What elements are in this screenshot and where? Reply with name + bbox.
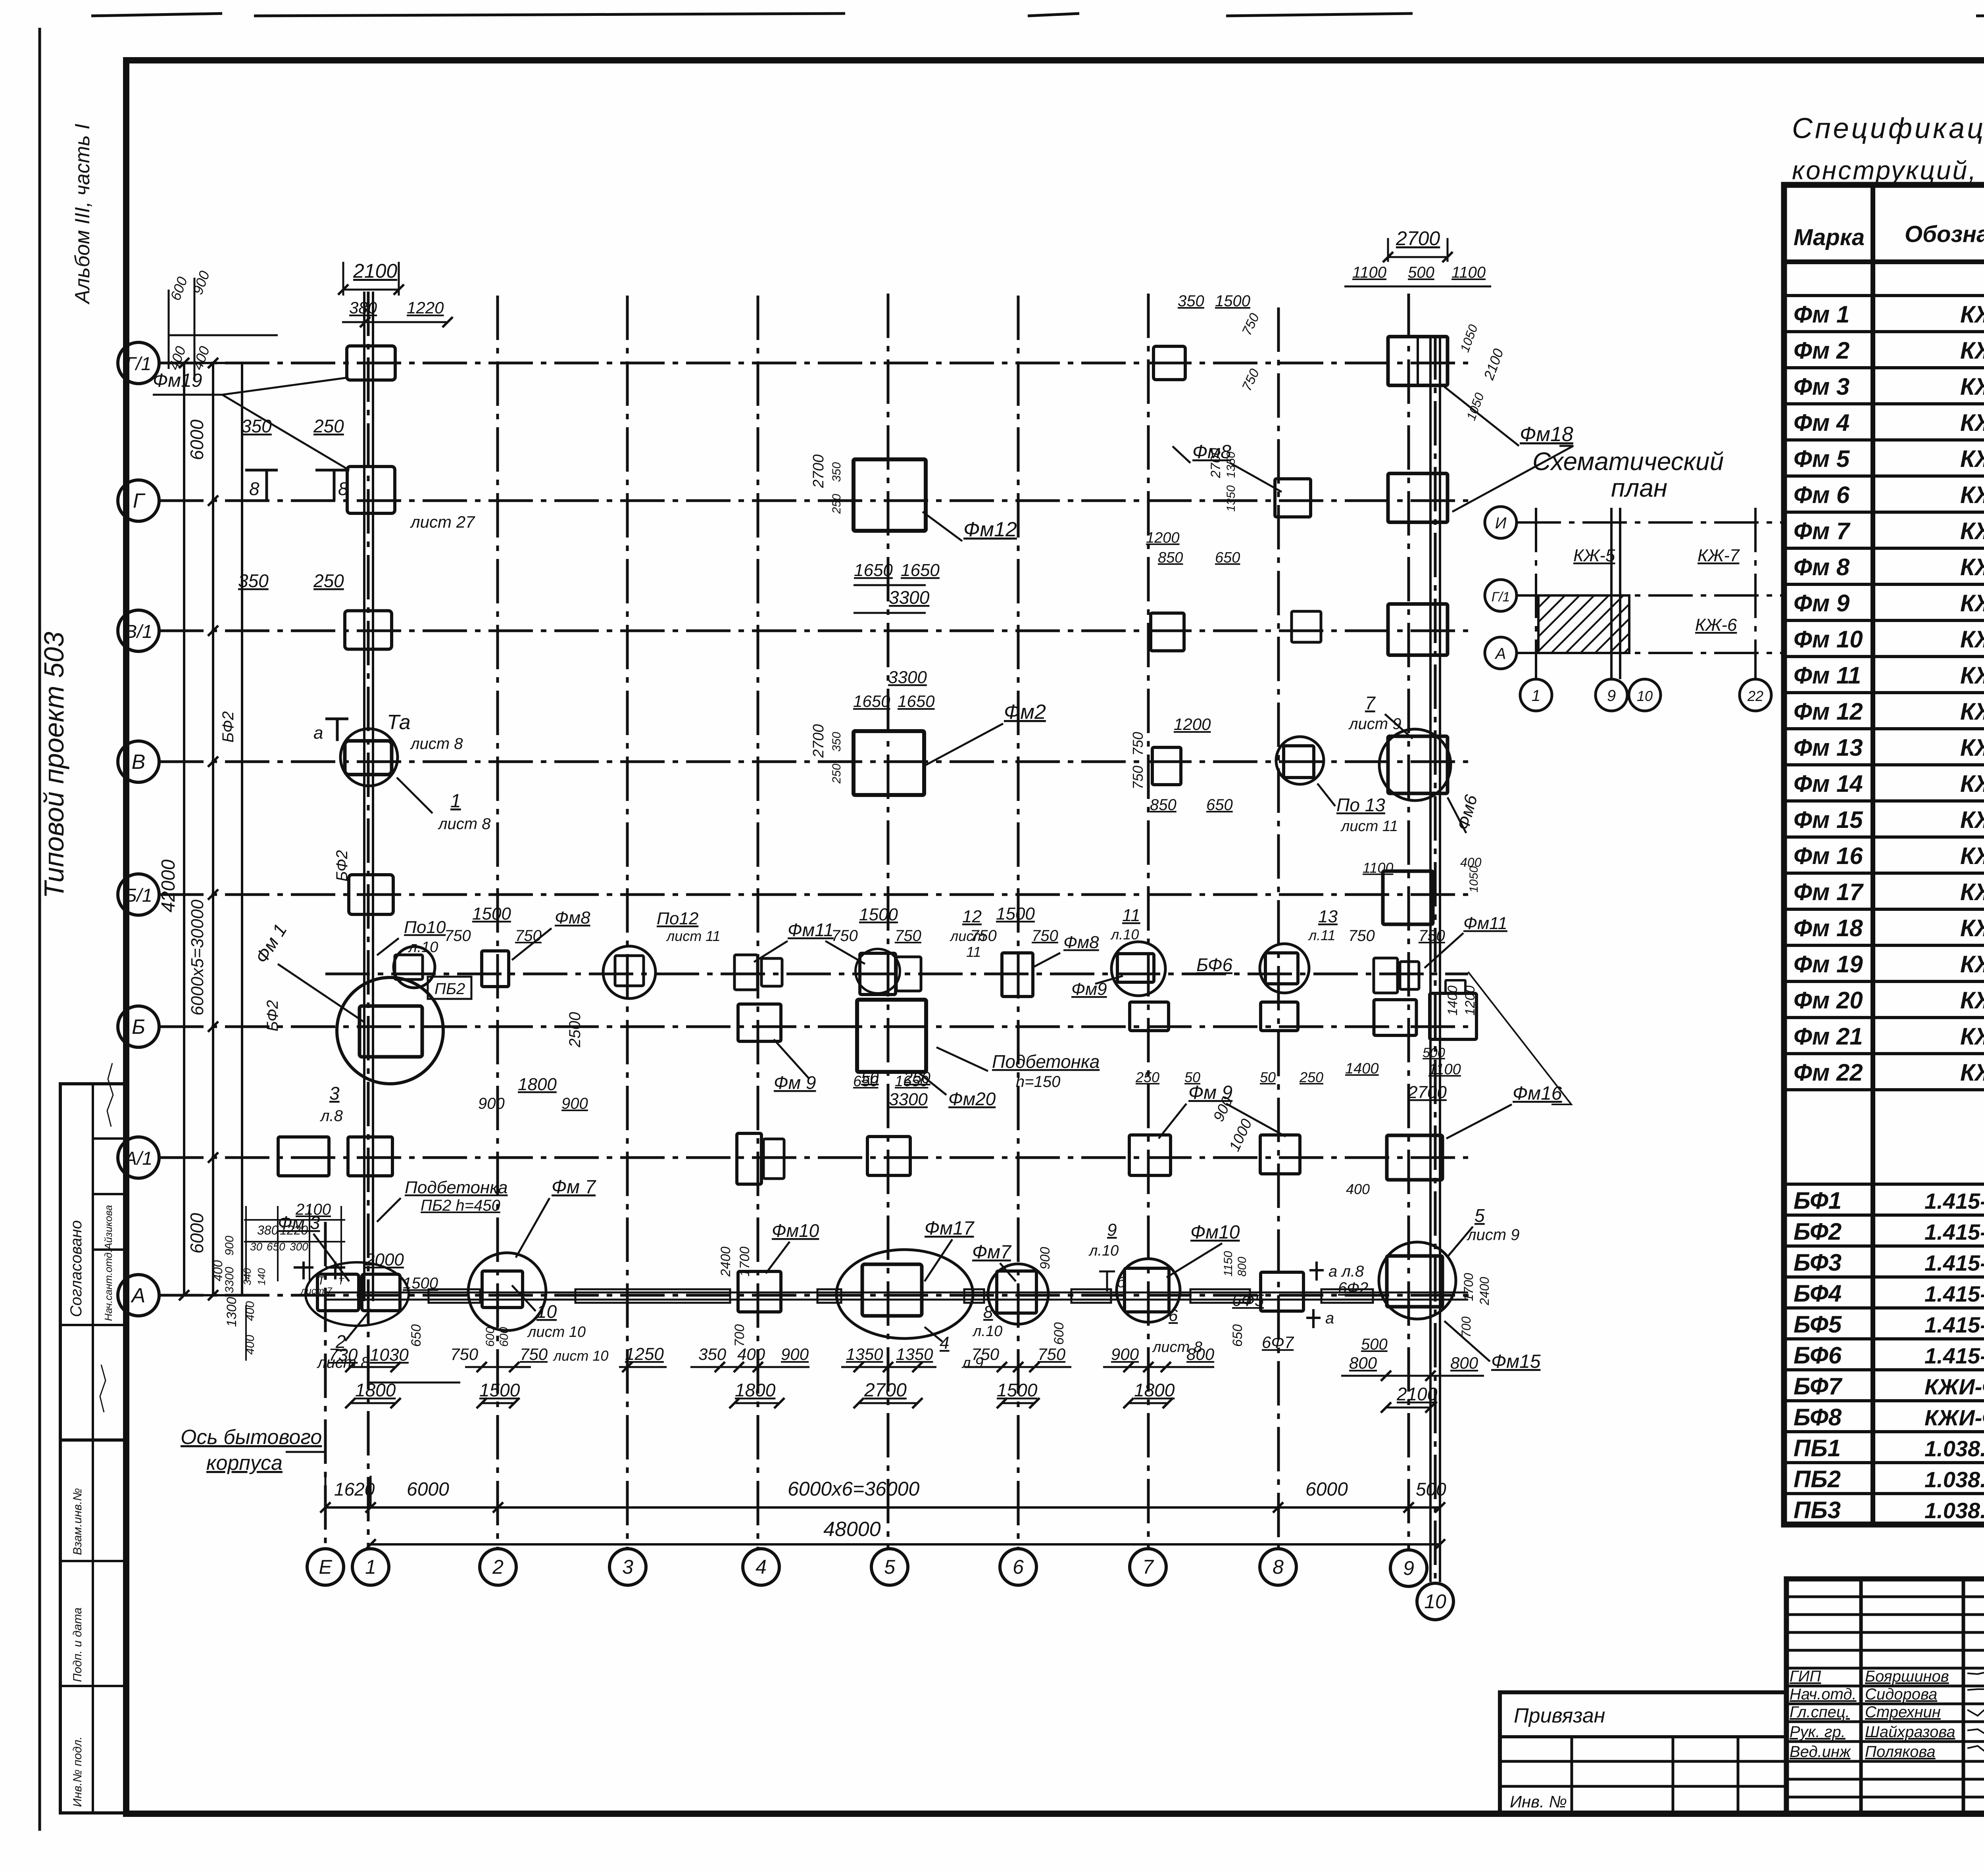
axis circle 5 [871,1549,908,1585]
foundation col8 row A [1261,1272,1303,1311]
spec row Фм 1 [1784,330,1984,333]
left dim line aux [241,363,243,1295]
svg-text:Фм 8: Фм 8 [1794,554,1850,580]
svg-text:5: 5 [1475,1205,1485,1226]
foundation col9 row A1 [1387,1135,1442,1180]
svg-text:900: 900 [478,1095,505,1112]
svg-text:1.415-1 в.1: 1.415-1 в.1 [1924,1250,1984,1275]
svg-text:Подбетонка: Подбетонка [405,1178,508,1197]
svg-text:800: 800 [1186,1345,1215,1363]
svg-text:500: 500 [1416,1479,1446,1500]
svg-text:1200: 1200 [1146,530,1180,546]
foundation col7 band circle [1111,942,1165,996]
svg-text:Гл.спец.: Гл.спец. [1790,1703,1850,1721]
foundation col1 row B circle 3l8 [337,977,443,1084]
svg-text:350: 350 [1178,292,1204,310]
axis circle 10 [1417,1583,1453,1620]
svg-text:Вед.инж: Вед.инж [1790,1743,1851,1761]
foundation col7 band lower [1130,1002,1169,1031]
spec row Фм 6 [1784,511,1984,514]
svg-text:Шайхразова: Шайхразова [1865,1723,1955,1741]
svg-text:Т: Т [338,1276,345,1287]
svg-text:750: 750 [1130,732,1146,756]
svg-text:Фм8: Фм8 [1063,933,1099,952]
svg-text:ПБ2: ПБ2 [1794,1466,1841,1492]
svg-text:11: 11 [966,944,981,960]
svg-text:8: 8 [1273,1556,1284,1578]
svg-text:1800: 1800 [518,1075,557,1094]
svg-text:ПБ2 h=450: ПБ2 h=450 [421,1197,500,1214]
svg-text:Г/1: Г/1 [126,353,152,374]
svg-text:22: 22 [1747,688,1763,704]
svg-text:1800: 1800 [1134,1380,1175,1400]
svg-text:500: 500 [1361,1336,1388,1353]
svg-text:730: 730 [329,1345,358,1365]
axis circle 2 [480,1549,516,1585]
svg-text:650: 650 [853,1073,878,1090]
svg-text:Фм11: Фм11 [788,920,834,940]
svg-text:750: 750 [444,927,471,945]
svg-text:Схематический: Схематический [1532,447,1724,476]
svg-text:1650: 1650 [901,561,940,580]
svg-text:Фм 5: Фм 5 [1794,445,1850,472]
sheet outer border left [38,28,41,1831]
svg-text:КЖ-15: КЖ-15 [1960,987,1984,1014]
svg-text:Фм20: Фм20 [948,1089,996,1109]
svg-text:Фм10: Фм10 [772,1220,819,1241]
spec row Фм 18 [1784,944,1984,947]
svg-text:380: 380 [257,1223,279,1237]
svg-text:КЖ-14: КЖ-14 [1960,734,1984,761]
svg-text:1650: 1650 [854,561,893,580]
svg-text:12: 12 [962,907,982,926]
foundation Po12 col3 [603,946,656,998]
svg-text:1.415-1 в.1: 1.415-1 в.1 [1924,1312,1984,1337]
axis line А/1 [159,1156,1468,1159]
svg-text:10: 10 [1637,688,1653,704]
svg-text:750: 750 [971,1345,1000,1363]
svg-text:400: 400 [211,1260,225,1281]
svg-text:10: 10 [1424,1590,1446,1613]
svg-text:2700: 2700 [1396,227,1440,250]
spec row БФ1 [1784,1214,1984,1217]
foundation Fm18 col9/10 [1388,337,1448,386]
svg-text:1100: 1100 [1428,1061,1461,1078]
svg-text:50: 50 [1260,1069,1276,1085]
svg-text:Фм 19: Фм 19 [1794,951,1863,977]
svg-text:Марка: Марка [1794,225,1865,250]
schematic axis A [1485,637,1517,669]
schematic axis G1 [1485,580,1517,611]
svg-text:лист 9: лист 9 [1348,715,1401,733]
svg-text:8: 8 [338,478,348,499]
svg-text:Рук. гр.: Рук. гр. [1790,1723,1846,1741]
svg-text:Б: Б [132,1016,145,1039]
svg-text:лист 11: лист 11 [1340,818,1398,835]
axis circle 6 [1000,1549,1036,1585]
svg-text:8: 8 [983,1302,993,1322]
spec row Фм 17 [1784,908,1984,911]
svg-text:Фм 14: Фм 14 [1794,770,1863,797]
foundation col6 band [1002,953,1033,997]
svg-text:700: 700 [732,1324,747,1347]
svg-text:1400: 1400 [1345,1060,1379,1077]
svg-text:1700: 1700 [1461,1273,1476,1301]
svg-text:лист 8: лист 8 [410,735,463,753]
svg-text:350: 350 [238,570,269,591]
axis line Б [159,1025,1468,1028]
svg-text:Фм 7: Фм 7 [552,1177,596,1198]
svg-text:ПБ2: ПБ2 [434,980,465,998]
svg-text:1500: 1500 [472,904,511,924]
foundation col1 row G [347,467,395,513]
title block signature columns [1859,1579,1863,1814]
svg-text:Та: Та [387,711,411,734]
axis circle Г/1 [118,342,159,384]
svg-text:л.10: л.10 [972,1323,1002,1340]
svg-text:750: 750 [895,927,921,945]
svg-text:Спецификация к схемам желез: Спецификация к схемам железобетонных [1792,113,1984,144]
foundation col10 row B [1430,993,1476,1039]
svg-text:Полякова: Полякова [1865,1743,1936,1761]
axis circle 3 [609,1549,646,1585]
foundation col1 row A1 pair [278,1137,329,1176]
svg-text:1350: 1350 [1225,451,1238,478]
svg-text:КЖИ-ФБ6-12-1: КЖИ-ФБ6-12-1 [1924,1374,1984,1399]
svg-text:3300: 3300 [889,1090,928,1109]
svg-text:КЖ-5: КЖ-5 [1573,546,1615,565]
svg-text:250: 250 [313,416,344,436]
svg-text:1400: 1400 [1445,985,1460,1016]
axis line В [159,760,1468,763]
svg-text:400: 400 [1346,1181,1370,1197]
axis line col 3 [626,296,629,1548]
svg-text:Фм7: Фм7 [972,1242,1012,1263]
svg-text:КЖИ-ФБ6-13-1: КЖИ-ФБ6-13-1 [1924,1405,1984,1430]
svg-text:1350: 1350 [846,1345,883,1363]
svg-text:КЖ-13: КЖ-13 [1960,879,1984,905]
svg-text:Фм19: Фм19 [153,370,202,391]
svg-text:3: 3 [622,1556,633,1578]
svg-text:850: 850 [1150,796,1177,814]
svg-text:900: 900 [1111,1345,1139,1363]
svg-text:650: 650 [409,1324,424,1347]
svg-text:750: 750 [450,1345,479,1363]
svg-text:500: 500 [1408,264,1434,281]
svg-text:2400: 2400 [718,1246,733,1277]
axis line Г [159,499,1468,502]
spec row Фм 16 [1784,872,1984,875]
svg-text:Нач.сант.отд.Айзикова: Нач.сант.отд.Айзикова [102,1205,114,1321]
svg-text:8: 8 [249,478,260,499]
svg-text:2100: 2100 [1396,1384,1438,1404]
svg-text:Стрехнин: Стрехнин [1865,1703,1941,1721]
foundation col4 row B [738,1004,781,1041]
svg-text:БФ8: БФ8 [1794,1404,1842,1431]
foundation podbetonka big rect [857,1000,926,1072]
svg-text:2700: 2700 [1407,1083,1447,1102]
svg-text:КЖ-18: КЖ-18 [1960,301,1984,328]
spec row Фм 3 [1784,402,1984,405]
label PB2 box [428,977,471,999]
svg-text:КЖ-20: КЖ-20 [1960,915,1984,941]
svg-text:БФ3: БФ3 [1794,1249,1842,1276]
spec row Фм 19 [1784,980,1984,983]
svg-text:БФ1: БФ1 [1794,1187,1842,1214]
foundation col2 row A circle [468,1253,546,1331]
svg-text:БФ6: БФ6 [1196,954,1232,975]
svg-text:1030: 1030 [370,1345,409,1365]
svg-text:Альбом III, часть I: Альбом III, часть I [71,124,94,305]
foundation col9/10 row B1 [1383,871,1433,924]
svg-text:1250: 1250 [625,1344,664,1364]
svg-text:л.10: л.10 [1088,1242,1119,1259]
svg-text:Подп. и дата: Подп. и дата [71,1607,84,1682]
svg-text:лист 10: лист 10 [553,1348,608,1364]
axis line col 4 [757,296,759,1548]
svg-text:ПБ3: ПБ3 [1794,1497,1841,1523]
svg-text:1.038.1-1 в.1: 1.038.1-1 в.1 [1924,1436,1984,1461]
svg-text:1100: 1100 [1363,860,1393,876]
svg-text:9: 9 [1403,1557,1414,1579]
svg-text:350: 350 [241,416,272,436]
svg-text:Фм8: Фм8 [555,908,590,927]
svg-text:Инв.№ подл.: Инв.№ подл. [71,1736,84,1807]
axis line В/1 [159,630,1468,632]
margin table inv [60,1440,125,1813]
spec row БФ2 [1784,1244,1984,1248]
spec row ПБ1 [1784,1461,1984,1464]
foundation col7 row A circle [1117,1259,1180,1322]
section a l8 [1315,1262,1318,1281]
foundation col5 row A1 [867,1137,910,1175]
svg-text:корпуса: корпуса [206,1452,283,1475]
spec row Фм 21 [1784,1052,1984,1055]
signature area row lines [1786,1596,1984,1598]
spec row Фм 4 [1784,438,1984,442]
axis 1 wall double line [363,292,365,1301]
svg-text:Г/1: Г/1 [1492,589,1510,605]
spec row БФ8 [1784,1430,1984,1433]
schematic axis 10 [1629,679,1661,711]
svg-text:13: 13 [1318,907,1338,926]
T marks [294,1266,313,1269]
svg-text:КЖ-17: КЖ-17 [1960,409,1984,436]
svg-text:КЖ-21: КЖ-21 [1960,626,1984,653]
svg-text:Фм10: Фм10 [1190,1222,1240,1243]
svg-text:1500: 1500 [479,1380,520,1400]
spec note row [1784,1088,1984,1091]
svg-text:КЖ-19: КЖ-19 [1960,482,1984,508]
spec table column lines [1871,185,1875,1525]
axis line Б/1 [159,893,1468,896]
svg-text:КЖ-18: КЖ-18 [1960,590,1984,616]
svg-text:2700: 2700 [810,454,827,488]
svg-text:БФ2: БФ2 [219,711,237,743]
svg-text:1350: 1350 [896,1345,933,1363]
svg-text:1100: 1100 [1352,264,1386,281]
svg-text:250: 250 [313,570,344,591]
axis line col 9 [1407,294,1410,1551]
svg-text:1200: 1200 [1174,715,1211,734]
svg-text:1500: 1500 [403,1275,438,1292]
foundation col8 band circle [1260,944,1309,993]
svg-text:л.10: л.10 [1110,926,1139,943]
svg-text:4: 4 [940,1333,949,1353]
svg-text:1150: 1150 [1222,1251,1235,1277]
svg-text:48000: 48000 [823,1518,881,1541]
svg-text:КЖ-6: КЖ-6 [1695,615,1737,635]
svg-text:Инв. №: Инв. № [1510,1792,1567,1811]
svg-text:а: а [1325,1310,1334,1327]
foundation 7list9 col9 [1388,736,1448,793]
svg-text:КЖ-14: КЖ-14 [1960,698,1984,725]
foundation col4 row A1 [737,1133,761,1184]
spec row Фм 7 [1784,547,1984,550]
svg-text:а л.8: а л.8 [1328,1263,1364,1280]
foundation col8 row V1 [1292,611,1321,642]
foundation Fm8 col7 [1153,346,1185,380]
svg-text:2700: 2700 [810,724,827,758]
svg-text:Фм 22: Фм 22 [1794,1059,1863,1086]
svg-text:а: а [313,723,323,743]
svg-text:БФ5: БФ5 [1794,1311,1842,1338]
margin table soglasovano [60,1084,125,1440]
svg-text:КЖ-14: КЖ-14 [1960,337,1984,364]
svg-text:б: б [1117,1274,1126,1291]
svg-text:10: 10 [536,1301,557,1322]
axis circle Г [118,480,159,521]
svg-text:800: 800 [1349,1354,1377,1372]
foundation col4 band [734,955,757,990]
svg-text:1350: 1350 [1225,485,1238,512]
left dim line 42000 [183,363,185,1295]
svg-text:И: И [1495,515,1507,532]
spec row БФ3 [1784,1275,1984,1279]
svg-text:БФ4: БФ4 [1794,1280,1842,1307]
svg-text:КЖ-16: КЖ-16 [1960,518,1984,544]
spec row Фм 12 [1784,727,1984,730]
svg-text:Фм18: Фм18 [1520,423,1573,446]
svg-text:6000: 6000 [186,1213,207,1254]
svg-text:6000х5=30000: 6000х5=30000 [188,899,207,1016]
spec row БФ5 [1784,1337,1984,1340]
svg-text:По 13: По 13 [1336,795,1385,815]
svg-text:1: 1 [1532,687,1540,705]
schematic axis 1 [1520,679,1552,711]
svg-text:350: 350 [698,1345,727,1363]
axis circle 7 [1130,1549,1166,1585]
svg-text:Фм 1: Фм 1 [1794,301,1849,328]
axis circle Б [118,1006,159,1047]
svg-text:КЖ-13: КЖ-13 [1960,843,1984,869]
svg-text:6: 6 [1013,1556,1024,1578]
svg-text:850: 850 [1158,549,1183,566]
svg-text:Нач.отд.: Нач.отд. [1790,1686,1857,1703]
svg-text:400: 400 [737,1345,765,1363]
svg-text:Согласовано: Согласовано [67,1220,85,1317]
spec row Фм 2 [1784,366,1984,369]
svg-text:1500: 1500 [859,905,898,924]
svg-text:750: 750 [1038,1345,1066,1363]
spec row Фм 8 [1784,583,1984,586]
foundation Fm19 col1 [347,346,395,380]
axis 10 wall double line [1429,335,1432,1582]
svg-text:250: 250 [830,494,843,514]
svg-text:1.415-1 в.1: 1.415-1 в.1 [1924,1189,1984,1214]
svg-text:1800: 1800 [735,1380,776,1400]
svg-text:6000х6=36000: 6000х6=36000 [788,1478,919,1500]
svg-text:900: 900 [561,1095,588,1112]
svg-text:750: 750 [831,927,858,945]
svg-text:1300: 1300 [224,1297,239,1327]
svg-text:план: план [1611,474,1667,502]
svg-text:Фм 16: Фм 16 [1794,843,1863,869]
svg-text:42000: 42000 [158,859,179,912]
foundation col8 row G [1275,479,1311,517]
svg-text:750: 750 [970,927,997,945]
svg-text:лист 8: лист 8 [438,815,491,833]
foundation col9 row A circle [1379,1242,1456,1319]
svg-text:Фм 13: Фм 13 [1794,734,1863,761]
svg-text:В: В [132,751,146,774]
svg-text:750: 750 [520,1345,548,1363]
svg-text:л.8: л.8 [320,1107,343,1125]
svg-text:900: 900 [781,1345,809,1363]
svg-text:340: 340 [241,1268,253,1285]
svg-text:л.11: л.11 [1308,927,1336,943]
svg-text:Фм 4: Фм 4 [1794,409,1849,436]
svg-text:КЖ-21: КЖ-21 [1960,806,1984,833]
svg-text:6Ф2: 6Ф2 [1338,1279,1368,1297]
axis circle В/1 [118,610,159,651]
svg-text:600: 600 [484,1327,497,1347]
axis line col Е [324,1222,327,1548]
svg-text:800: 800 [1450,1354,1478,1372]
svg-text:Взам.инв.№: Взам.инв.№ [71,1488,84,1555]
axis line col 6 [1017,296,1020,1548]
top axis1 left small dims [169,334,278,336]
svg-text:380: 380 [349,298,377,317]
spec row БФ6 [1784,1368,1984,1371]
svg-text:9: 9 [1107,1220,1117,1240]
svg-text:750: 750 [1419,927,1445,945]
svg-text:Г: Г [133,490,146,513]
svg-text:1.415-1 в.1: 1.415-1 в.1 [1924,1343,1984,1368]
svg-text:1.415-1 в.1: 1.415-1 в.1 [1924,1219,1984,1244]
svg-text:По12: По12 [657,909,698,928]
svg-text:лист 27: лист 27 [409,513,475,531]
foundation colE row A [317,1274,359,1311]
spec row Фм 15 [1784,835,1984,839]
svg-text:лист 10: лист 10 [527,1324,586,1340]
svg-text:1.038.1-1 в.1: 1.038.1-1 в.1 [1924,1467,1984,1492]
foundation Po13 col8 [1284,746,1314,778]
svg-text:Фм 6: Фм 6 [1794,482,1850,508]
foundation col8 band lower [1261,1002,1298,1031]
svg-text:КЖ-7: КЖ-7 [1698,546,1740,565]
svg-text:Фм 9: Фм 9 [1794,590,1850,616]
axis line col 8 [1277,307,1280,1548]
svg-text:Типовой проект 503: Типовой проект 503 [38,632,69,899]
svg-text:1200: 1200 [1463,985,1478,1016]
svg-text:1620: 1620 [334,1479,375,1500]
svg-text:БФ7: БФ7 [1794,1373,1843,1400]
svg-text:3300: 3300 [889,587,930,608]
axis line col 1 [367,292,370,1548]
svg-text:лист 9: лист 9 [1467,1226,1519,1244]
svg-text:КЖ-20: КЖ-20 [1960,951,1984,977]
